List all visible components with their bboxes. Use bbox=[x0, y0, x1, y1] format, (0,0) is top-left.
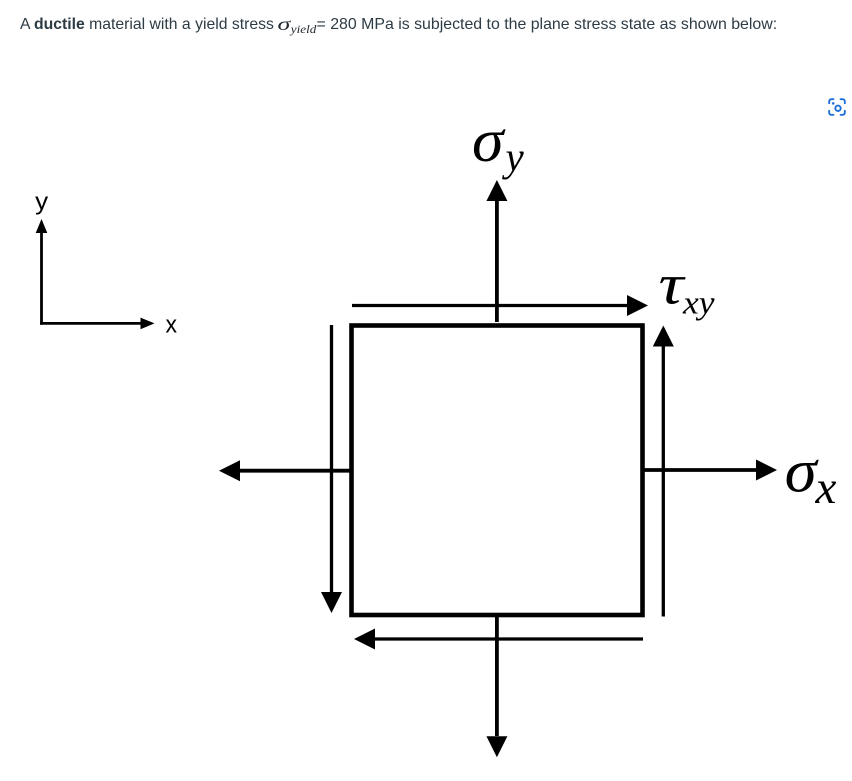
svg-text:x: x bbox=[166, 312, 178, 339]
top shear arrow (pointing right) bbox=[352, 304, 628, 307]
svg-text:y: y bbox=[502, 134, 525, 180]
x-axis bbox=[40, 322, 141, 325]
bottom shear arrow (pointing left) bbox=[375, 637, 643, 640]
title math sigma_yield bbox=[276, 14, 322, 40]
sigma_y arrow (top face, pointing up) bbox=[495, 199, 499, 322]
left face arrow (pointing left) bbox=[240, 469, 351, 473]
svg-text:σ: σ bbox=[472, 108, 507, 175]
sigma_x arrow (right face, pointing right) bbox=[643, 468, 757, 472]
left shear arrow (pointing down) bbox=[330, 325, 333, 592]
sigma_y bottom arrow (pointing down) bbox=[495, 616, 499, 736]
title text part 2 bbox=[317, 16, 778, 34]
svg-text:σ: σ bbox=[785, 439, 820, 506]
title text part 1 bbox=[20, 16, 274, 34]
svg-text:x: x bbox=[815, 462, 837, 514]
svg-text:y: y bbox=[35, 189, 48, 216]
right shear arrow (pointing up) bbox=[662, 346, 665, 617]
scan icon (blue viewfinder) bbox=[827, 97, 847, 117]
svg-text:xy: xy bbox=[682, 286, 715, 322]
square element bbox=[352, 326, 643, 616]
y-axis bbox=[40, 232, 43, 325]
